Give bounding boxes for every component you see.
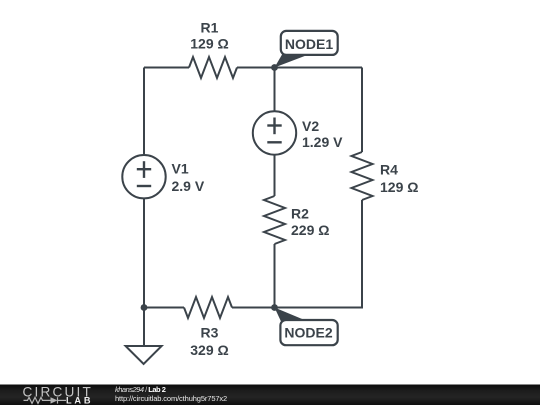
- svg-text:NODE1: NODE1: [285, 36, 333, 52]
- node NODE1 callout: [275, 31, 338, 68]
- svg-text:V1: V1: [172, 160, 189, 176]
- svg-text:V2: V2: [302, 118, 319, 134]
- wire middle (V2 bottom to R2 top): [274, 155, 276, 197]
- wire bottom (R3 right to node2): [232, 307, 275, 309]
- wire middle lower (R2 bottom to node2): [274, 244, 276, 308]
- node junction NODE1 dot: [271, 64, 278, 71]
- node NODE2 callout: [275, 308, 338, 346]
- resistor R2: [264, 196, 285, 244]
- svg-text:LAB: LAB: [66, 396, 93, 405]
- label R1 value: [190, 19, 228, 51]
- wire right side (corner to R4 top): [361, 68, 363, 153]
- svg-text:R2: R2: [291, 205, 309, 221]
- svg-text:229 Ω: 229 Ω: [291, 222, 329, 238]
- svg-text:khans294 / Lab 2: khans294 / Lab 2: [115, 385, 166, 394]
- svg-text:2.9 V: 2.9 V: [172, 178, 205, 194]
- wire left lower (V1 to bottom-left junction): [143, 198, 145, 307]
- voltage source V1: [122, 155, 165, 198]
- svg-text:129 Ω: 129 Ω: [380, 179, 418, 195]
- wire ground stub: [143, 308, 145, 347]
- voltage source V2: [253, 111, 296, 154]
- footer bar: [0, 385, 540, 405]
- wire top-left (V1 top to R1 left): [144, 67, 189, 69]
- svg-text:329 Ω: 329 Ω: [190, 342, 228, 358]
- wire middle upper (node1 to V2 top): [274, 68, 276, 112]
- node junction NODE2 dot: [271, 304, 278, 311]
- wire top-right (R1 right to node1 and corner): [237, 67, 362, 69]
- wire left upper (top-left corner down to V1): [143, 68, 145, 156]
- label R2 value: [291, 205, 329, 238]
- resistor R3: [184, 297, 232, 318]
- junction bottom-left dot: [141, 304, 148, 311]
- svg-text:1.29 V: 1.29 V: [302, 134, 343, 150]
- svg-text:http://circuitlab.com/cthuhg5r: http://circuitlab.com/cthuhg5r757x2: [115, 394, 227, 403]
- resistor R4: [352, 152, 373, 200]
- label V2 value: [302, 118, 343, 150]
- svg-text:R3: R3: [201, 324, 219, 340]
- label R3 value: [190, 324, 228, 357]
- logo resistor-diode glyph: [24, 397, 67, 403]
- svg-text:R1: R1: [201, 19, 219, 35]
- svg-text:R4: R4: [380, 161, 398, 177]
- svg-text:129 Ω: 129 Ω: [190, 36, 228, 52]
- resistor R1: [189, 57, 237, 78]
- wire bottom-left (junction to R3 left): [144, 307, 184, 309]
- label V1 value: [172, 160, 205, 194]
- ground: [126, 346, 162, 364]
- wire right side lower (R4 bottom to bottom-right corner): [275, 200, 363, 308]
- svg-text:NODE2: NODE2: [284, 324, 332, 340]
- label R4 value: [380, 161, 418, 195]
